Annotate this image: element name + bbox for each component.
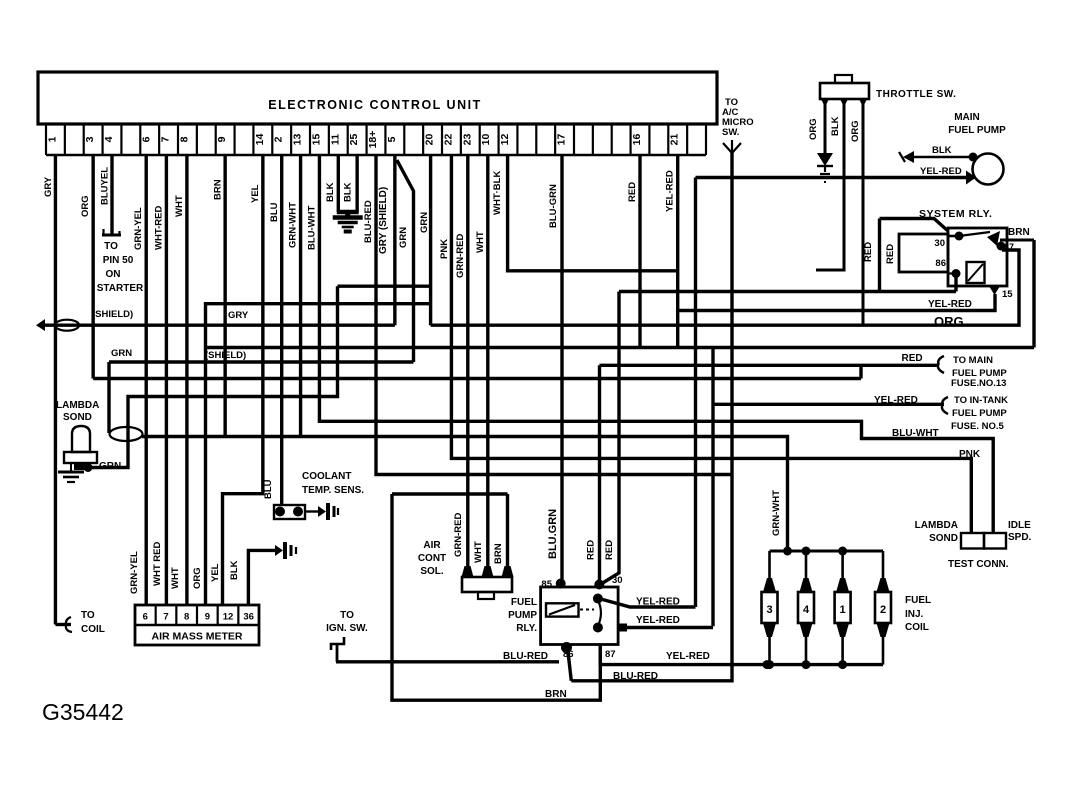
- svg-text:15: 15: [310, 134, 322, 146]
- svg-text:ORG: ORG: [850, 120, 861, 142]
- svg-text:16: 16: [631, 134, 643, 146]
- svg-text:10: 10: [480, 134, 492, 146]
- svg-text:STARTER: STARTER: [97, 283, 144, 294]
- svg-text:GRN-WHT: GRN-WHT: [288, 202, 299, 248]
- svg-text:COIL: COIL: [905, 622, 929, 633]
- svg-text:12: 12: [499, 134, 511, 146]
- svg-text:ORG: ORG: [192, 567, 203, 589]
- svg-text:21: 21: [669, 134, 681, 146]
- svg-text:11: 11: [329, 134, 341, 145]
- svg-text:BLU.GRN: BLU.GRN: [547, 509, 559, 559]
- svg-text:RED: RED: [604, 540, 615, 560]
- svg-text:GRY (SHIELD): GRY (SHIELD): [378, 187, 389, 254]
- svg-text:COIL: COIL: [81, 624, 105, 635]
- svg-text:2: 2: [273, 136, 285, 142]
- svg-text:5: 5: [386, 136, 398, 142]
- svg-text:INJ.: INJ.: [905, 609, 924, 620]
- svg-text:TO IN-TANK: TO IN-TANK: [954, 395, 1008, 406]
- svg-text:SOND: SOND: [63, 412, 92, 423]
- svg-text:GRY: GRY: [228, 310, 249, 321]
- svg-text:TO: TO: [104, 241, 118, 252]
- svg-text:FUEL: FUEL: [905, 595, 931, 606]
- svg-text:PUMP: PUMP: [508, 610, 537, 621]
- svg-text:THROTTLE SW.: THROTTLE SW.: [876, 89, 956, 100]
- svg-text:14: 14: [254, 134, 266, 146]
- svg-text:G35442: G35442: [42, 699, 124, 725]
- svg-text:18+: 18+: [367, 131, 379, 149]
- svg-text:BRN: BRN: [213, 179, 224, 200]
- svg-text:30: 30: [934, 238, 945, 249]
- svg-text:TEST CONN.: TEST CONN.: [948, 559, 1009, 570]
- svg-text:TO: TO: [81, 610, 95, 621]
- svg-text:20: 20: [424, 134, 436, 146]
- svg-text:9: 9: [205, 612, 210, 623]
- svg-text:8: 8: [184, 612, 189, 623]
- svg-text:86: 86: [935, 258, 946, 269]
- svg-text:WHT RED: WHT RED: [152, 542, 163, 586]
- svg-text:87: 87: [605, 649, 616, 660]
- svg-text:2: 2: [880, 604, 886, 616]
- svg-text:13: 13: [292, 134, 304, 146]
- svg-text:6: 6: [143, 612, 148, 623]
- svg-text:COOLANT: COOLANT: [302, 471, 351, 482]
- svg-text:36: 36: [243, 612, 254, 623]
- svg-text:SOND: SOND: [929, 533, 958, 544]
- svg-text:SOL.: SOL.: [420, 566, 444, 577]
- svg-text:MAIN: MAIN: [954, 112, 980, 123]
- svg-text:(SHIELD): (SHIELD): [92, 309, 133, 320]
- svg-text:SPD.: SPD.: [1008, 532, 1032, 543]
- svg-text:IDLE: IDLE: [1008, 520, 1031, 531]
- svg-text:LAMBDA: LAMBDA: [915, 520, 958, 531]
- svg-text:LAMBDA: LAMBDA: [56, 400, 99, 411]
- svg-text:1: 1: [46, 136, 58, 142]
- svg-text:22: 22: [442, 134, 454, 146]
- svg-text:FUSE.NO.13: FUSE.NO.13: [951, 378, 1006, 389]
- svg-text:BLU-WHT: BLU-WHT: [892, 428, 939, 439]
- svg-text:YEL: YEL: [210, 563, 221, 582]
- svg-text:30: 30: [612, 575, 623, 586]
- svg-text:WHT: WHT: [473, 541, 484, 563]
- svg-text:AIR: AIR: [423, 540, 441, 551]
- svg-text:6: 6: [141, 136, 153, 142]
- svg-text:WHT: WHT: [174, 195, 185, 217]
- svg-text:23: 23: [461, 134, 473, 146]
- svg-text:WHT: WHT: [170, 567, 181, 589]
- svg-text:YEL-RED: YEL-RED: [636, 615, 680, 626]
- svg-text:RED: RED: [863, 242, 874, 262]
- svg-text:BLK: BLK: [325, 182, 336, 202]
- svg-text:ELECTRONIC CONTROL UNIT: ELECTRONIC CONTROL UNIT: [268, 98, 481, 112]
- svg-text:ORG: ORG: [934, 314, 964, 329]
- svg-text:AIR MASS METER: AIR MASS METER: [151, 631, 242, 643]
- svg-text:RED: RED: [627, 182, 638, 202]
- svg-text:86: 86: [563, 649, 574, 660]
- svg-text:BLK: BLK: [229, 560, 240, 580]
- svg-text:YEL-RED: YEL-RED: [874, 395, 918, 406]
- svg-text:RED: RED: [885, 244, 896, 264]
- svg-text:YEL-RED: YEL-RED: [920, 166, 962, 177]
- svg-text:FUEL: FUEL: [511, 597, 537, 608]
- svg-text:YEL-RED: YEL-RED: [928, 299, 972, 310]
- svg-text:8: 8: [178, 136, 190, 142]
- svg-text:IGN. SW.: IGN. SW.: [326, 623, 368, 634]
- svg-text:BLU-GRN: BLU-GRN: [548, 184, 559, 228]
- svg-text:3: 3: [84, 136, 96, 142]
- svg-text:BLUYEL: BLUYEL: [100, 167, 111, 205]
- svg-text:CONT: CONT: [418, 553, 446, 564]
- svg-text:7: 7: [160, 136, 172, 142]
- svg-text:RED: RED: [586, 540, 597, 560]
- svg-text:BLK: BLK: [830, 116, 841, 136]
- svg-text:15: 15: [1002, 289, 1013, 300]
- svg-text:YEL-RED: YEL-RED: [665, 170, 676, 212]
- svg-text:1: 1: [840, 604, 846, 616]
- svg-text:(SHIELD): (SHIELD): [205, 350, 246, 361]
- svg-text:87: 87: [1004, 242, 1014, 252]
- svg-text:PNK: PNK: [439, 239, 450, 259]
- svg-text:GRN: GRN: [111, 348, 132, 359]
- svg-text:FUEL PUMP: FUEL PUMP: [952, 408, 1007, 419]
- svg-text:WHT-RED: WHT-RED: [153, 206, 164, 250]
- svg-text:BLU: BLU: [263, 479, 274, 499]
- svg-text:RLY.: RLY.: [516, 623, 537, 634]
- svg-text:17: 17: [556, 134, 568, 146]
- svg-text:3: 3: [766, 604, 772, 616]
- svg-text:ORG: ORG: [808, 118, 819, 140]
- svg-text:BLK: BLK: [343, 182, 354, 202]
- svg-text:GRN-WHT: GRN-WHT: [771, 490, 782, 536]
- svg-text:WHT: WHT: [475, 231, 486, 253]
- svg-text:BLU-RED: BLU-RED: [613, 671, 658, 682]
- svg-text:GRN-YEL: GRN-YEL: [129, 551, 140, 594]
- svg-text:YEL: YEL: [250, 184, 261, 203]
- svg-text:GRY: GRY: [43, 176, 54, 197]
- svg-text:FUSE. NO.5: FUSE. NO.5: [951, 421, 1005, 432]
- svg-text:PIN 50: PIN 50: [103, 255, 134, 266]
- svg-text:YEL-RED: YEL-RED: [636, 597, 680, 608]
- svg-text:WHT·BLK: WHT·BLK: [492, 171, 503, 215]
- svg-text:4: 4: [803, 604, 810, 616]
- svg-text:BRN: BRN: [1008, 227, 1030, 238]
- svg-text:BLU-RED: BLU-RED: [503, 651, 548, 662]
- svg-text:BLU-WHT: BLU-WHT: [306, 205, 317, 250]
- svg-text:TO MAIN: TO MAIN: [953, 355, 993, 366]
- svg-text:FUEL PUMP: FUEL PUMP: [948, 125, 1006, 136]
- svg-text:ON: ON: [106, 269, 121, 280]
- svg-text:GRN: GRN: [398, 227, 409, 248]
- svg-text:RED: RED: [902, 353, 923, 364]
- svg-text:BLK: BLK: [932, 145, 952, 156]
- svg-text:BLU-RED: BLU-RED: [363, 200, 374, 243]
- svg-text:4: 4: [103, 136, 115, 142]
- svg-text:BRN: BRN: [545, 689, 567, 700]
- svg-text:SYSTEM RLY.: SYSTEM RLY.: [919, 208, 992, 220]
- svg-text:GRN-RED: GRN-RED: [453, 513, 464, 557]
- svg-text:TO: TO: [340, 610, 354, 621]
- svg-text:12: 12: [223, 612, 234, 623]
- svg-text:85: 85: [541, 579, 552, 590]
- svg-text:TEMP. SENS.: TEMP. SENS.: [302, 485, 364, 496]
- svg-text:GRN: GRN: [99, 461, 121, 472]
- svg-text:PNK: PNK: [959, 449, 981, 460]
- svg-text:BLU: BLU: [269, 202, 280, 222]
- svg-text:GRN-YEL: GRN-YEL: [133, 207, 144, 250]
- svg-text:ORG: ORG: [80, 195, 91, 217]
- svg-text:25: 25: [348, 134, 360, 146]
- svg-text:BRN: BRN: [493, 543, 504, 564]
- svg-text:9: 9: [216, 136, 228, 142]
- svg-text:GRN: GRN: [419, 212, 430, 233]
- svg-text:YEL-RED: YEL-RED: [666, 651, 710, 662]
- svg-text:7: 7: [163, 612, 168, 623]
- svg-text:GRN-RED: GRN-RED: [455, 234, 466, 278]
- svg-text:SW.: SW.: [722, 127, 739, 138]
